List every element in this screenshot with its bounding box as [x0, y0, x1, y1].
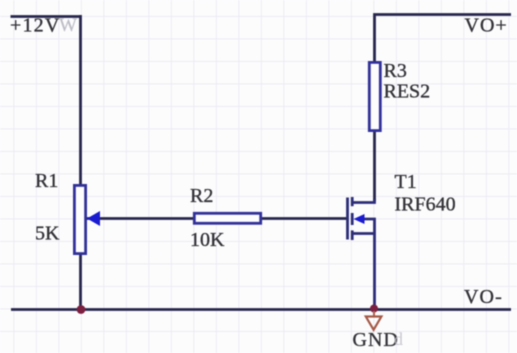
svg-text:d: d: [394, 329, 403, 349]
svg-text:VO+: VO+: [465, 15, 508, 37]
svg-text:IRF640: IRF640: [395, 194, 456, 216]
svg-text:10K: 10K: [190, 229, 225, 251]
svg-text:R1: R1: [35, 170, 58, 192]
svg-text:RES2: RES2: [384, 81, 431, 103]
svg-text:R2: R2: [190, 185, 213, 207]
svg-text:5K: 5K: [35, 223, 60, 245]
svg-text:T1: T1: [395, 171, 417, 193]
svg-text:GND: GND: [353, 329, 399, 351]
svg-text:R3: R3: [384, 60, 407, 82]
svg-text:W: W: [59, 15, 77, 36]
svg-text:VO-: VO-: [464, 286, 503, 308]
svg-text:+12V: +12V: [10, 15, 61, 37]
